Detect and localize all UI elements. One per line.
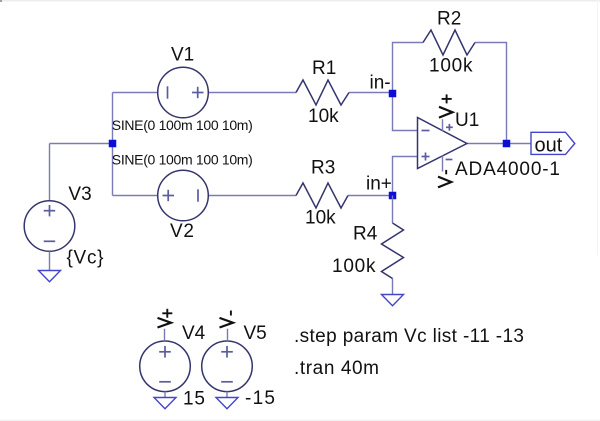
svg-text:U1: U1 — [455, 110, 479, 131]
net label V- on V5 (rotated) — [220, 318, 234, 328]
svg-text:R1: R1 — [312, 58, 336, 79]
svg-text:V2: V2 — [170, 221, 194, 242]
wire V1 left lead — [113, 92, 159, 94]
pin label V+ (rotated) — [439, 107, 453, 118]
svg-text:10k: 10k — [305, 208, 336, 229]
ground V3 — [39, 271, 61, 282]
pin V5 top — [227, 329, 229, 342]
ground V4 — [154, 398, 176, 409]
wire vertical branch V1/V2 — [112, 93, 114, 196]
resistor R4 — [382, 223, 404, 279]
voltage source V3 — [24, 201, 75, 252]
wire in+ node up to opamp plus input — [393, 157, 419, 196]
net label V+ on V4 (rotated) — [158, 318, 172, 328]
svg-text:R2: R2 — [437, 9, 461, 30]
node junction in+ — [389, 192, 397, 200]
opamp power pin V+ — [442, 119, 444, 131]
svg-text:{Vc}: {Vc} — [67, 248, 104, 269]
svg-text:R4: R4 — [353, 224, 378, 245]
node junction in- — [389, 90, 397, 98]
voltage source V5 — [202, 341, 253, 392]
wire V5 bottom — [226, 392, 228, 398]
node junction out — [503, 140, 511, 148]
pin label V- (rotated) — [438, 177, 451, 188]
wire R3 to in+ node — [348, 195, 393, 197]
svg-text:R3: R3 — [311, 158, 335, 179]
wire V2 right to R3 — [208, 195, 296, 197]
wire R2 right side down to output — [475, 43, 507, 144]
ground V5 — [216, 398, 238, 409]
voltage source V2 — [158, 170, 209, 221]
svg-text:V4: V4 — [182, 323, 206, 344]
svg-text:V3: V3 — [68, 184, 91, 205]
svg-text:100k: 100k — [429, 56, 473, 77]
wire in+ node down to R4 — [392, 196, 394, 224]
svg-text:V1: V1 — [171, 45, 194, 66]
svg-text:15: 15 — [183, 389, 205, 410]
resistor R2 — [423, 30, 475, 55]
port out — [531, 132, 575, 154]
wire opamp output to port — [467, 143, 531, 145]
svg-text:ADA4000-1: ADA4000-1 — [455, 159, 560, 180]
svg-text:in-: in- — [370, 73, 391, 94]
voltage source V1 — [158, 67, 209, 118]
svg-text:100k: 100k — [332, 256, 376, 277]
svg-text:.step param Vc list -11 -13: .step param Vc list -11 -13 — [294, 326, 524, 347]
wire in- node down to opamp minus input — [393, 93, 419, 131]
opamp power pin V- — [442, 156, 444, 172]
op-amp U1 — [418, 118, 467, 169]
wire V3 to junction — [50, 143, 113, 145]
wire V1 right to R1 — [208, 92, 296, 94]
node junction V3 branch — [109, 140, 117, 148]
top window border — [0, 0, 600, 2]
wire R4 bottom to ground — [392, 279, 394, 295]
svg-text:.tran 40m: .tran 40m — [294, 358, 379, 379]
pin V4 top — [164, 329, 166, 342]
wire V3 bottom — [49, 251, 51, 270]
svg-text:out: out — [535, 135, 563, 157]
svg-text:-15: -15 — [245, 388, 275, 409]
wire R1 to in- node — [349, 92, 393, 94]
wire V3 top — [49, 144, 51, 202]
wire V2 left lead — [113, 195, 159, 197]
svg-text:SINE(0 100m 100 10m): SINE(0 100m 100 10m) — [112, 117, 253, 133]
svg-text:SINE(0 100m 100 10m): SINE(0 100m 100 10m) — [112, 151, 253, 167]
ground R4 — [382, 295, 404, 306]
svg-text:V5: V5 — [244, 323, 267, 344]
wire in- node up to R2 — [393, 43, 424, 93]
wire V4 bottom — [164, 392, 166, 398]
voltage source V4 — [140, 341, 191, 392]
resistor R1 — [296, 80, 349, 105]
svg-text:10k: 10k — [308, 106, 339, 127]
resistor R3 — [296, 183, 348, 208]
svg-text:in+: in+ — [366, 174, 392, 195]
